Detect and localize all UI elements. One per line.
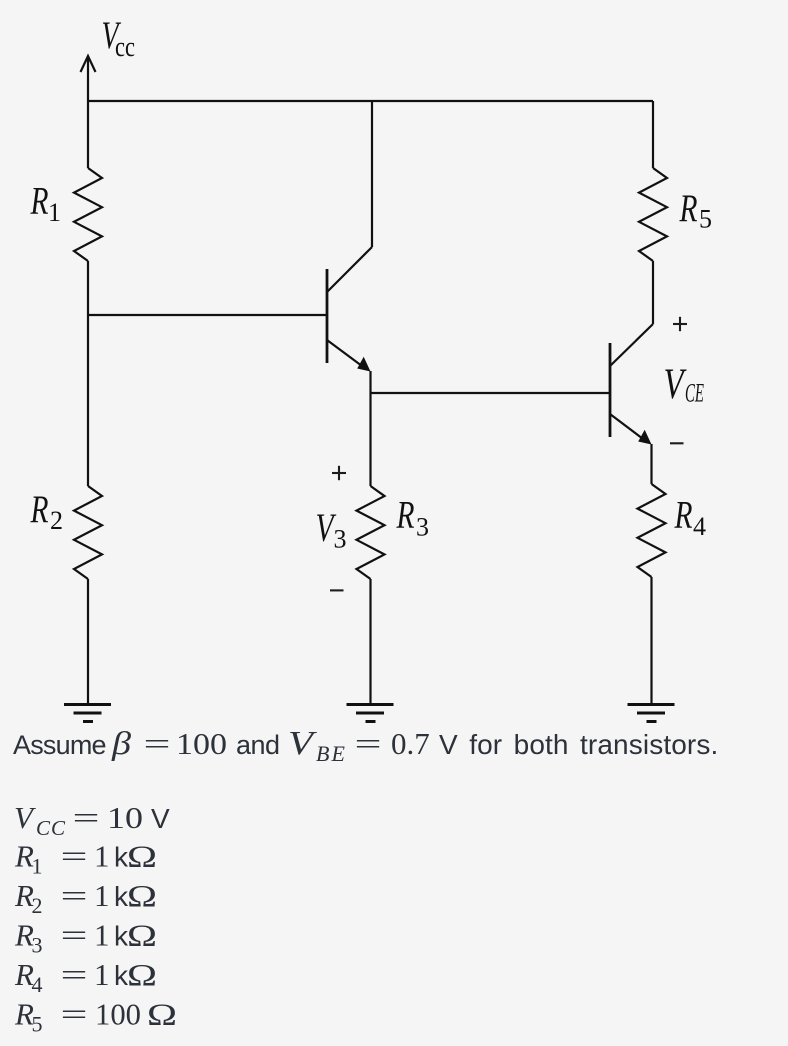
svg-text:CE: CE [685,379,704,408]
V3 label [316,505,347,554]
resistor R5 [639,168,667,261]
svg-text:3: 3 [334,525,347,554]
svg-text:R: R [30,180,49,223]
svg-text:1: 1 [48,198,61,227]
svg-text:4: 4 [32,972,43,997]
svg-text:3: 3 [416,513,429,542]
svg-text:V: V [151,803,170,834]
svg-text:1: 1 [94,957,110,992]
svg-text:V: V [14,800,36,835]
svg-text:CC: CC [36,816,66,840]
svg-text:Ω: Ω [147,997,177,1032]
value line R5 [14,997,177,1037]
resistor R4 [638,484,666,577]
transistor Q1 collector [327,101,372,292]
svg-text:Ω: Ω [127,918,157,953]
svg-text:3: 3 [32,933,43,958]
wire: left rail below R2 [87,579,89,704]
R5 label [679,187,712,234]
plus sign of VCE [673,317,687,331]
R1 label [30,180,61,228]
wire: left rail above R1 [87,101,89,168]
svg-text:100: 100 [95,997,141,1032]
R4 label [674,494,706,542]
svg-text:1: 1 [32,854,43,879]
wire: right rail above R5 [652,101,654,168]
svg-text:2: 2 [32,893,43,918]
transistor Q1 emitter with arrow [327,340,371,372]
svg-text:R: R [30,488,49,531]
svg-text:R: R [674,494,693,537]
svg-text:=: = [61,997,88,1032]
transistor Q2 base bar [609,343,612,437]
svg-text:1: 1 [94,918,110,953]
svg-text:Ω: Ω [127,878,157,913]
ground (middle) [347,705,394,722]
wire: base wire of Q1 (node between R1 and R2 to Q1 base) [88,314,327,316]
wire: Q1 emitter node to Q2 base [371,392,611,394]
svg-text:Ω: Ω [127,839,157,874]
wire: below R3 [369,579,371,704]
svg-text:5: 5 [699,205,712,234]
svg-text:2: 2 [50,506,63,535]
resistor R2 [74,486,102,579]
resistor R3 [357,486,385,579]
svg-text:Assume: Assume [13,730,106,760]
R2 label [30,488,63,535]
wire: left rail between R1 and R2 [87,261,89,486]
svg-text:5: 5 [32,1012,43,1037]
svg-text:R: R [396,494,415,537]
svg-text:0.7: 0.7 [391,726,430,761]
svg-text:β: β [111,726,132,762]
ground (right) [628,705,675,722]
wire: Q2 emitter down to R4 [650,444,652,484]
transistor Q2 collector [610,324,653,366]
VCE label [664,361,705,408]
wire: below R4 [650,577,652,704]
R3 label [396,494,429,542]
svg-text:=: = [355,726,382,761]
wire: top rail [88,100,653,102]
svg-text:=: = [61,878,88,913]
value line R3 [14,918,157,958]
minus sign of V3 [330,589,344,591]
minus sign of VCE [670,442,684,444]
ground (left) [64,705,111,722]
caption: assumption line [13,725,718,766]
svg-text:10: 10 [107,800,143,835]
svg-text:100: 100 [176,726,227,761]
resistor R1 [74,168,102,261]
svg-text:4: 4 [693,512,706,541]
transistor Q2 emitter with arrow [610,414,652,445]
plus sign of V3 [332,466,346,480]
svg-text:BE: BE [316,741,347,766]
svg-text:1: 1 [94,878,110,913]
Vcc supply arrow [81,56,96,101]
svg-text:=: = [61,839,88,874]
value line R2 [14,878,157,918]
svg-text:R: R [679,187,698,230]
value line VCC [14,800,170,840]
value line R1 [14,839,157,879]
wire: Q1 emitter down to R3 [369,371,371,486]
wire: R5 to Q2 collector [652,261,654,324]
svg-text:1: 1 [94,839,110,874]
svg-text:=: = [144,726,171,761]
svg-text:=: = [73,800,100,835]
svg-text:V for both transistors.: V for both transistors. [439,729,718,760]
svg-text:cc: cc [115,31,135,63]
svg-text:=: = [61,957,88,992]
svg-text:Ω: Ω [127,957,157,992]
svg-text:=: = [61,918,88,953]
value line R4 [14,957,157,997]
svg-text:and: and [236,730,280,760]
transistor Q1 base bar [326,269,329,363]
